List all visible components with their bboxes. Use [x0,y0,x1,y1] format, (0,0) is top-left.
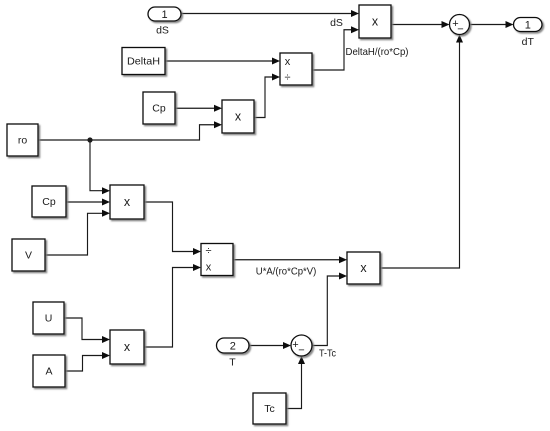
svg-text:U*A/(ro*Cp*V): U*A/(ro*Cp*V) [256,265,316,277]
svg-text:÷: ÷ [205,245,211,257]
svg-text:÷: ÷ [284,72,290,84]
svg-text:−: − [298,345,304,357]
svg-text:dS: dS [330,17,343,29]
svg-text:A: A [45,366,52,378]
svg-text:DeltaH/(ro*Cp): DeltaH/(ro*Cp) [346,46,409,58]
svg-text:x: x [206,262,212,274]
svg-text:T: T [229,357,236,369]
svg-text:1: 1 [525,19,531,31]
svg-text:U: U [45,313,53,325]
svg-text:dS: dS [156,25,169,37]
svg-text:ro: ro [18,135,27,147]
svg-text:x: x [124,340,131,354]
svg-text:T-Tc: T-Tc [319,348,336,360]
svg-text:x: x [372,15,379,29]
svg-text:x: x [285,56,291,68]
svg-text:x: x [124,195,131,209]
svg-text:dT: dT [522,36,535,48]
svg-text:Cp: Cp [152,103,166,115]
svg-text:−: − [457,24,463,36]
svg-text:Tc: Tc [264,403,275,415]
svg-text:2: 2 [230,340,236,352]
svg-text:1: 1 [161,9,167,21]
svg-text:V: V [25,250,32,262]
svg-text:x: x [235,110,242,124]
svg-text:DeltaH: DeltaH [127,55,160,67]
svg-text:x: x [360,261,367,275]
svg-text:Cp: Cp [42,196,56,208]
